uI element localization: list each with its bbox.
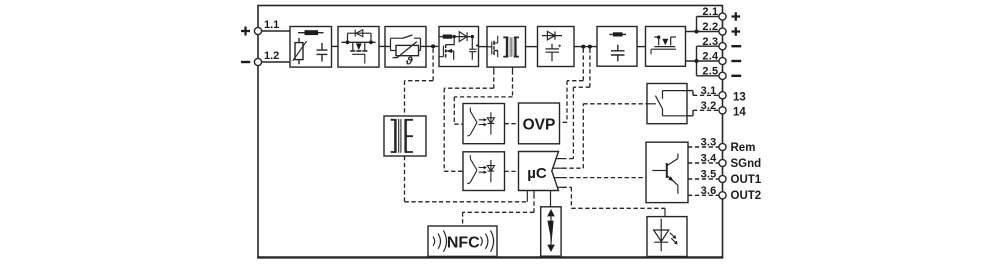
terminal 2.2 [719, 28, 726, 35]
terminal 1.2 [254, 58, 261, 65]
LED D4 [654, 219, 669, 252]
block buck converter (fuse/diode/mosfet/cap) [439, 27, 479, 67]
diode D2 [459, 32, 467, 42]
block output filter (fuse + cap) [597, 27, 637, 67]
dashed wire uC to signal transistor [563, 177, 647, 179]
svg-text:3.2: 3.2 [701, 100, 717, 112]
wire terminal 1.2 to block input [261, 61, 290, 63]
wire minus rail to terminals 2.3 / 2.4 / 2.5 [686, 46, 719, 76]
wire [332, 45, 339, 47]
block setpoint adjust (up/down arrows) [541, 207, 561, 256]
block NFC interface [428, 226, 497, 256]
block output rectifier (diode + cap) [538, 27, 575, 67]
svg-text:NFC: NFC [447, 235, 480, 252]
wire [479, 46, 488, 48]
capacitor C1 [317, 43, 328, 62]
svg-text:3.4: 3.4 [701, 153, 718, 165]
svg-text:13: 13 [733, 91, 746, 103]
wire with node A [426, 45, 438, 47]
svg-text:SGnd: SGnd [731, 158, 762, 170]
block inrush limiter (NTC + bypass switch) [385, 27, 426, 68]
svg-text:2.4: 2.4 [702, 51, 719, 63]
dashed wire opto2 to uC [505, 170, 519, 172]
label - output 2.3 [731, 45, 741, 47]
svg-text:3.6: 3.6 [701, 185, 717, 197]
transistor Q3 (mosfet) [487, 46, 492, 48]
dashed wire converter drive to opto 2 [493, 67, 495, 71]
optocoupler U3 symbol [467, 155, 494, 183]
svg-text:2.1: 2.1 [702, 6, 718, 18]
label - input [241, 61, 250, 63]
block input protection (fuse/varistor/cap) [290, 27, 332, 68]
dashed wire node A to aux transformer primary [405, 49, 434, 116]
terminal 3.2 [719, 107, 726, 114]
svg-text:ϑ: ϑ [405, 56, 414, 68]
block optocoupler 1 [463, 104, 505, 144]
svg-text:Rem: Rem [731, 142, 756, 154]
block LED indicator [647, 217, 687, 257]
fuse F2 [443, 35, 453, 39]
svg-text:OUT1: OUT1 [731, 174, 762, 186]
capacitor C4 [611, 45, 625, 61]
svg-text:2.5: 2.5 [702, 66, 718, 78]
wire plus rail to terminals 2.1 / 2.2 [686, 17, 719, 32]
wire transistor outputs to terminals 3.3-3.6 [688, 147, 719, 195]
device outline box [258, 6, 723, 258]
label - output 2.4 [731, 60, 741, 62]
block isolating converter (mosfet + transformer) [487, 27, 526, 68]
NFC waves left [433, 231, 447, 252]
relay contact K1 [647, 103, 656, 105]
svg-text:1.2: 1.2 [264, 50, 279, 62]
wire relay to terminal 3.1 [687, 91, 693, 96]
svg-text:2.3: 2.3 [702, 36, 718, 48]
svg-text:3.5: 3.5 [701, 169, 717, 181]
wire [379, 45, 385, 47]
dashed wire opto1 to OVP [505, 123, 519, 125]
block OVP [519, 103, 560, 144]
terminal 3.4 [719, 159, 726, 166]
wire [637, 46, 646, 48]
terminal 2.1 [719, 13, 726, 20]
capacitor C2 [469, 37, 476, 60]
svg-text:3.3: 3.3 [701, 137, 717, 149]
capacitor C3 [546, 44, 560, 62]
varistor [298, 38, 300, 64]
wire [526, 46, 538, 48]
terminal 1.1 [254, 27, 261, 34]
label + input [241, 27, 250, 36]
thermistor NTC [396, 45, 419, 55]
block reverse-polarity protection (diode + mosfet) [338, 27, 379, 68]
terminal 2.5 [719, 72, 726, 79]
node [471, 35, 474, 38]
dashed wire uC to NFC [463, 195, 534, 227]
transformer T1 [508, 37, 514, 56]
wire [439, 36, 473, 38]
dashed wire aux transformer secondary to uC [405, 156, 528, 202]
terminal 3.1 [719, 92, 726, 99]
block output switch (mosfet) [646, 27, 686, 67]
wire [385, 45, 426, 47]
terminal 2.4 [719, 57, 726, 64]
dashed wire converter drive to opto 1 [512, 67, 514, 71]
transistor Q2 (mosfet) [446, 37, 454, 45]
svg-text:3.1: 3.1 [701, 85, 717, 97]
NFC waves right [481, 231, 494, 252]
fuse F3 [610, 33, 627, 35]
node [453, 35, 456, 38]
svg-text:1.1: 1.1 [264, 19, 279, 31]
svg-text:2.2: 2.2 [702, 21, 718, 33]
svg-text:OUT2: OUT2 [731, 190, 762, 202]
bypass switch [391, 35, 421, 39]
svg-text:14: 14 [733, 106, 746, 118]
transistor Q5 [652, 170, 667, 172]
transistor Q1 (mosfet) [353, 42, 365, 50]
fuse F1 [298, 32, 324, 34]
optocoupler U2 symbol [467, 108, 494, 136]
svg-text:µC: µC [527, 165, 547, 182]
terminal 3.6 [719, 192, 726, 199]
wire with node B and node C [574, 46, 597, 48]
label + output 2.2 [732, 27, 741, 36]
dashed wire uC to relay drive [563, 104, 648, 168]
diode D3 [542, 31, 562, 39]
relay block [647, 84, 687, 124]
block microcontroller uC [519, 152, 559, 191]
dashed wire uC to LED [563, 187, 666, 208]
terminal 2.3 [719, 43, 726, 50]
block optocoupler 2 [463, 152, 505, 191]
terminal 3.3 [719, 143, 726, 150]
label + output 2.1 [732, 12, 741, 21]
node [369, 40, 373, 44]
diode D1 [348, 33, 372, 42]
svg-text:OVP: OVP [523, 117, 556, 134]
wire relay to terminal 3.2 [687, 110, 693, 116]
wire terminal 1.1 to block input [261, 30, 290, 32]
dashed wire node C to uC sense [563, 49, 590, 159]
wire uC to adjust block [550, 191, 552, 207]
node [346, 40, 350, 44]
dashed wire node B to OVP sense [560, 49, 584, 123]
terminal 3.5 [719, 175, 726, 182]
block aux transformer (feedback isolation) [384, 116, 426, 156]
transformer T2 [394, 119, 397, 153]
label - output 2.5 [731, 75, 741, 77]
wire [342, 41, 376, 43]
transistor Q4 (mosfet) [654, 37, 676, 45]
block signal transistor [646, 142, 688, 202]
